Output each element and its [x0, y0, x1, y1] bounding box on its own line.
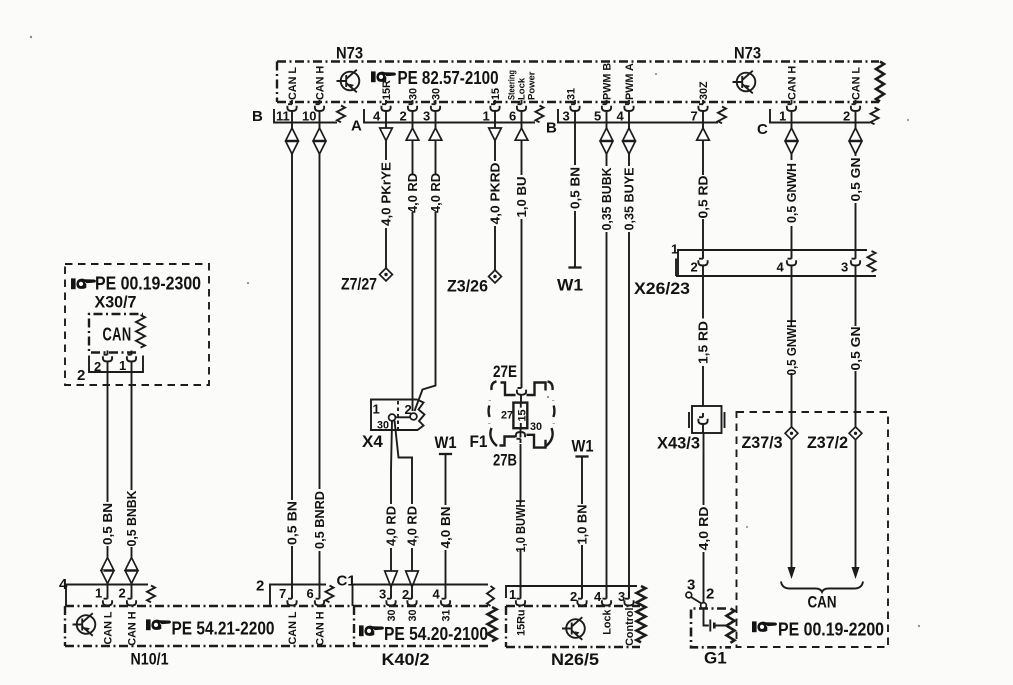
pin socket X43/3 — [698, 413, 707, 424]
svg-text:N10/1: N10/1 — [131, 650, 169, 669]
svg-text:4,0 RD: 4,0 RD — [385, 506, 399, 546]
svg-text:27E: 27E — [493, 362, 517, 381]
wire F1 27B to N26/5 pin1 — [520, 444, 522, 597]
svg-text:27B: 27B — [493, 451, 517, 470]
wire pin A2 to X4 terminal — [412, 111, 414, 411]
svg-text:2: 2 — [570, 589, 577, 604]
svg-text:6: 6 — [509, 109, 516, 124]
svg-text:1: 1 — [119, 358, 126, 373]
arrow pin A4 — [380, 128, 393, 141]
N26/5 box — [506, 606, 640, 647]
svg-text:7: 7 — [691, 109, 698, 124]
wire X26/23 pin4 to splice Z37/3 — [791, 266, 793, 428]
bidirectional arrow pin C2 — [849, 128, 862, 154]
svg-text:4: 4 — [433, 587, 441, 602]
wire pin B4 to N26/5 pin3 — [628, 111, 630, 597]
pin socket K40/2-4 — [441, 595, 450, 606]
svg-text:X43/3: X43/3 — [657, 434, 700, 453]
N10/1+K40/2 box top edge — [65, 605, 490, 607]
ground W1 top — [568, 267, 581, 269]
pin socket C2 — [851, 100, 860, 111]
svg-text:CAN H: CAN H — [315, 611, 327, 645]
svg-text:4,0 RD: 4,0 RD — [406, 506, 420, 546]
svg-text:CAN L: CAN L — [287, 67, 299, 100]
svg-text:0,5 BN: 0,5 BN — [569, 167, 583, 209]
svg-text:15: 15 — [490, 88, 502, 100]
N73 box top edge — [277, 60, 879, 62]
svg-text:G1: G1 — [704, 649, 727, 668]
transistor symbol in N26/5 — [562, 617, 585, 640]
svg-text:W1: W1 — [572, 437, 594, 456]
connector B bracket right half — [558, 107, 726, 124]
svg-text:K40/2: K40/2 — [382, 650, 430, 669]
svg-text:F1: F1 — [470, 432, 488, 451]
CAN gateway inner box (dash-dot) — [89, 314, 145, 353]
wire pin A3 to X4 terminal (with jog) — [415, 111, 436, 411]
svg-text:3: 3 — [379, 587, 386, 602]
fuse terminal socket 27B — [516, 432, 525, 443]
svg-text:Power: Power — [527, 71, 538, 100]
svg-text:2: 2 — [119, 586, 126, 601]
svg-text:PE 54.20-2100: PE 54.20-2100 — [384, 623, 488, 644]
N73 box right edge resistor zigzag — [876, 62, 884, 102]
svg-text:1,5 RD: 1,5 RD — [697, 321, 711, 364]
N26/5 pin3 stub — [628, 587, 630, 598]
wire W1 to N26/5 pin2 — [581, 457, 583, 598]
bidirectional arrow pin C1 — [785, 128, 798, 154]
N73 box bottom edge — [277, 101, 879, 103]
svg-text:A: A — [351, 118, 362, 135]
svg-text:31: 31 — [566, 88, 578, 100]
arrow pin A3 — [429, 128, 442, 140]
wire X4 stud30 to K40/2 pin3 — [391, 421, 392, 571]
svg-text:1: 1 — [95, 586, 102, 601]
pin socket X30/7-2 — [103, 351, 112, 362]
X30/7 outer dashed box — [65, 264, 209, 385]
svg-text:X26/23: X26/23 — [634, 279, 690, 298]
svg-text:6: 6 — [307, 586, 314, 601]
svg-text:N26/5: N26/5 — [551, 650, 599, 669]
N73 box left edge — [276, 62, 278, 103]
pin socket X26/23-2 — [698, 255, 707, 266]
svg-text:PWM A: PWM A — [624, 63, 636, 100]
G1 switch terminal 2 circle — [701, 603, 707, 609]
hand pointer icon N10/1 — [146, 619, 171, 630]
svg-text:1: 1 — [483, 109, 490, 124]
svg-text:0,35 BUYE: 0,35 BUYE — [623, 168, 637, 231]
pin socket X26/23-4 — [787, 255, 796, 266]
wire Z37/3 down to CAN bundle — [791, 440, 793, 567]
transistor symbol in N73 left — [337, 70, 360, 93]
N10/1 pin1 stub — [107, 584, 109, 598]
svg-text:Z7/27: Z7/27 — [341, 275, 377, 294]
pin socket N26/5-1 — [516, 595, 525, 606]
svg-text:1,0 BN: 1,0 BN — [576, 505, 590, 545]
bidirectional arrow pin B4 — [623, 128, 636, 154]
svg-text:1: 1 — [779, 109, 786, 124]
svg-text:2: 2 — [691, 260, 698, 275]
pin socket K40/2-3 — [386, 595, 395, 606]
svg-text:0,5 BNRD: 0,5 BNRD — [313, 491, 327, 549]
svg-text:2: 2 — [77, 367, 85, 384]
N26/5 pin1 stub — [520, 587, 522, 598]
pin socket K40/2-2 — [407, 595, 416, 606]
pin socket A3 — [431, 100, 440, 111]
svg-text:4,0 RD: 4,0 RD — [406, 173, 420, 213]
scan noise specks — [30, 36, 920, 627]
svg-text:CAN L: CAN L — [851, 67, 863, 100]
bidirectional arrow pin 10 — [313, 128, 326, 154]
N26/5 pin2 stub — [581, 587, 583, 598]
svg-text:PE 54.21-2200: PE 54.21-2200 — [172, 618, 275, 639]
K40/2 pin3 stub — [390, 587, 392, 598]
hand pointer icon PE 00.19-2200 — [752, 621, 777, 632]
svg-text:N73: N73 — [336, 44, 363, 63]
svg-text:0,5 GNWH: 0,5 GNWH — [785, 163, 799, 223]
fuse box top right staple — [527, 383, 546, 396]
arrow pin 7 — [697, 128, 710, 140]
svg-text:C: C — [757, 121, 768, 138]
svg-text:30: 30 — [431, 88, 443, 100]
X4 terminal stud 2 — [410, 413, 417, 420]
K40/2 pin2 stub — [411, 587, 413, 598]
pin label Steering Lock Power (pin 6) — [507, 70, 538, 100]
G1 battery cell symbol — [704, 609, 728, 632]
fuse terminal socket 27E — [517, 384, 526, 395]
pin socket A2 — [408, 100, 417, 111]
svg-text:0,5 BNBK: 0,5 BNBK — [125, 491, 139, 547]
svg-text:3: 3 — [841, 260, 848, 275]
N10/1 box left edge — [64, 606, 66, 646]
wire pin 7 to X26/23 pin2 — [702, 111, 704, 257]
pin socket A1 — [490, 100, 499, 111]
svg-text:31: 31 — [441, 610, 453, 622]
fuse box right dash-dot edge — [546, 382, 554, 447]
svg-text:2: 2 — [706, 586, 714, 603]
svg-text:X4: X4 — [362, 432, 383, 451]
svg-text:5: 5 — [594, 109, 601, 124]
pin socket B3 — [570, 100, 579, 111]
svg-text:4: 4 — [617, 109, 625, 124]
pin socket B4 — [624, 100, 633, 111]
wire pin B5 to N26/5 pin4 — [606, 111, 608, 597]
svg-text:X30/7: X30/7 — [95, 293, 137, 312]
svg-text:1,0 BU: 1,0 BU — [515, 177, 529, 218]
pin socket N10/1-1 — [103, 595, 112, 606]
svg-text:4,0 RD: 4,0 RD — [429, 173, 443, 213]
svg-text:30: 30 — [386, 610, 398, 622]
svg-text:3: 3 — [687, 577, 695, 594]
N10/1 pin2 stub — [131, 584, 133, 598]
fuse box bottom left staple — [500, 437, 516, 446]
svg-text:N73: N73 — [734, 44, 761, 63]
svg-text:3: 3 — [618, 589, 625, 604]
ground W1 near X4 — [439, 453, 452, 455]
pin socket X30/7-1 — [127, 351, 136, 362]
svg-text:Z37/2: Z37/2 — [807, 433, 848, 452]
wire pin C2 to X26/23 pin3 — [855, 111, 857, 257]
wire X4 stud30 to K40/2 pin2 (with jog) — [395, 421, 413, 571]
svg-text:1: 1 — [671, 242, 678, 257]
wire W1 to K40/2 pin4 — [445, 454, 447, 597]
pin socket C1 — [787, 100, 796, 111]
hand pointer icon X30/7 — [71, 278, 96, 289]
svg-text:0,5 BN: 0,5 BN — [101, 503, 115, 545]
X4 terminal stud 30 — [389, 414, 396, 421]
svg-text:B: B — [252, 108, 263, 125]
svg-text:Z37/3: Z37/3 — [742, 433, 783, 452]
N10/1 / K40/2 divider — [353, 606, 355, 646]
N26/5 bracket — [506, 586, 637, 598]
hand pointer icon K40/2 — [359, 625, 384, 636]
svg-text:0,5 BN: 0,5 BN — [286, 501, 300, 545]
svg-text:Control: Control — [624, 608, 636, 646]
svg-text:W1: W1 — [557, 276, 583, 295]
arrow pin A6 — [515, 128, 528, 140]
svg-text:15: 15 — [516, 409, 528, 421]
pin socket B5 — [602, 100, 611, 111]
svg-text:30: 30 — [530, 421, 542, 433]
svg-text:27: 27 — [501, 410, 513, 422]
svg-text:W1: W1 — [435, 433, 457, 452]
transistor symbol in N10/1 — [73, 613, 96, 636]
bidirectional arrow pin B5 — [600, 128, 613, 154]
wire X30/7 pin1 to N10/1 pin2 — [131, 362, 133, 558]
svg-text:15Ru: 15Ru — [516, 610, 528, 636]
svg-text:CAN H: CAN H — [315, 66, 327, 100]
pin socket N10/1-7 — [287, 595, 296, 606]
fuse box bottom right staple — [527, 435, 546, 448]
K40/2 right edge zigzag — [488, 607, 497, 641]
wire X30/7 pin2 to N10/1 pin1 — [107, 362, 109, 558]
svg-text:1: 1 — [509, 587, 516, 602]
svg-text:10: 10 — [302, 109, 316, 124]
N26/5 pin4 stub — [606, 587, 608, 598]
pin socket 7 — [698, 100, 707, 111]
splice Z37/2 — [849, 427, 862, 440]
svg-text:0,5 GN: 0,5 GN — [849, 158, 863, 202]
N10/1 bracket 2 — [270, 585, 334, 607]
X26/23 connector bar — [676, 250, 876, 276]
pin socket N26/5-3 — [624, 595, 633, 606]
svg-text:CAN: CAN — [103, 324, 132, 345]
svg-text:PE 00.19-2300: PE 00.19-2300 — [95, 273, 201, 294]
splice Z7/27 — [380, 268, 393, 281]
pin socket N10/1-6 — [315, 595, 324, 606]
svg-text:15R: 15R — [381, 80, 393, 100]
svg-text:30Z: 30Z — [698, 81, 710, 100]
wire pin A6 to fuse F1 terminal 27E — [521, 111, 523, 386]
bidirectional arrow above N10/1 pin2 — [125, 558, 138, 584]
arrow above K40/2 pin2 — [406, 571, 419, 587]
arrow pin A1 — [489, 128, 502, 141]
svg-text:30: 30 — [407, 610, 419, 622]
X30/7 pin bracket — [89, 356, 143, 373]
transistor symbol in N73 right — [733, 71, 756, 94]
splice Z3/26 — [489, 270, 502, 283]
N10/1+K40/2 box bottom edge — [65, 645, 490, 647]
wire X26/23 pin2 to X43/3 — [702, 266, 704, 407]
svg-text:B: B — [546, 120, 557, 137]
pin socket B11 — [287, 100, 296, 111]
bidirectional arrow pin 11 — [286, 128, 299, 154]
svg-text:C1: C1 — [337, 573, 356, 590]
svg-text:4,0 PKrYE: 4,0 PKrYE — [380, 162, 394, 226]
svg-text:0,5 GN: 0,5 GN — [849, 327, 863, 371]
svg-text:PE 82.57-2100: PE 82.57-2100 — [398, 67, 499, 88]
wire pin11 to N10/1 pin7 (CAN bus) — [291, 111, 293, 597]
wire pin B3 to ground W1 — [574, 111, 576, 267]
svg-text:4: 4 — [594, 589, 602, 604]
G1 battery switch terminal 3 circle — [686, 592, 692, 598]
svg-text:3: 3 — [423, 109, 430, 124]
pin socket A4 — [381, 100, 390, 111]
svg-text:Lock: Lock — [602, 609, 614, 635]
splice Z37/3 — [785, 427, 798, 440]
hand pointer icon N73 — [371, 71, 396, 82]
svg-text:30: 30 — [377, 420, 389, 432]
pin socket A6 — [517, 100, 526, 111]
fuse element 15A — [513, 395, 527, 438]
svg-text:CAN H: CAN H — [127, 611, 139, 645]
svg-text:1: 1 — [373, 402, 380, 417]
wire pin A1 to splice Z3/26 — [494, 111, 496, 271]
svg-text:PWM B: PWM B — [602, 63, 614, 100]
svg-text:PE 00.19-2200: PE 00.19-2200 — [778, 619, 884, 640]
X4 terminal block body — [371, 400, 425, 431]
svg-text:4,0 PKRD: 4,0 PKRD — [489, 163, 503, 225]
svg-text:30: 30 — [408, 88, 420, 100]
bidirectional arrow above N10/1 pin1 — [101, 558, 114, 584]
pin socket N26/5-4 — [602, 595, 611, 606]
svg-text:4,0 BN: 4,0 BN — [439, 507, 453, 549]
wire pin C1 to X26/23 pin4 — [791, 111, 793, 257]
svg-text:1,0 BUWH: 1,0 BUWH — [514, 500, 528, 553]
svg-text:CAN H: CAN H — [787, 66, 799, 100]
G1 battery switch blade — [691, 597, 702, 604]
arrow above K40/2 pin3 — [385, 571, 398, 587]
G1 battery box (dash-dot) — [691, 609, 735, 648]
svg-text:0,5 GNWH: 0,5 GNWH — [785, 320, 799, 376]
fuse box left dash-dot edge — [489, 382, 497, 447]
wire X26/23 pin3 to splice Z37/2 — [855, 266, 857, 428]
arrowhead Z37/2 — [852, 567, 860, 579]
K40/2 bracket C1 — [353, 585, 495, 607]
svg-text:11: 11 — [276, 109, 290, 124]
pin socket N26/5-2 — [577, 595, 586, 606]
svg-text:4: 4 — [777, 260, 785, 275]
pin socket X26/23-3 — [851, 255, 860, 266]
svg-text:4,0 RD: 4,0 RD — [697, 507, 711, 551]
big dashed box PE 00.19-2200 — [737, 412, 889, 647]
svg-text:4: 4 — [59, 576, 68, 593]
svg-text:Z3/26: Z3/26 — [447, 277, 488, 296]
pin socket N10/1-2 — [127, 595, 136, 606]
svg-text:0,35 BUBK: 0,35 BUBK — [600, 168, 614, 231]
X4 internal link wire — [395, 416, 410, 418]
fuse box top left staple — [501, 383, 516, 396]
connector C bracket — [770, 108, 879, 125]
connector A bracket — [364, 106, 544, 123]
wire pin A4 to splice Z7/27 — [385, 111, 387, 268]
svg-text:CAN L: CAN L — [103, 611, 115, 644]
CAN bundle brace — [781, 582, 863, 593]
X43/3 connector box — [689, 406, 725, 433]
svg-text:4: 4 — [373, 109, 381, 124]
connector B bracket — [274, 106, 345, 123]
svg-text:3: 3 — [563, 109, 570, 124]
arrowhead Z37/3 — [788, 567, 796, 579]
pin socket B10 — [315, 100, 324, 111]
N10/1 bracket 4 — [66, 585, 155, 607]
N26/5 right edge zigzag — [637, 586, 646, 642]
wire X43/3 to battery G1 terminal 2 — [702, 424, 705, 602]
arrow pin A2 — [406, 128, 419, 140]
svg-text:0,5 RD: 0,5 RD — [697, 176, 711, 219]
svg-text:CAN L: CAN L — [287, 611, 299, 644]
ground W1 near N26/5 — [575, 456, 588, 458]
wire Z37/2 down to CAN bundle — [855, 440, 857, 567]
svg-text:2: 2 — [400, 109, 407, 124]
svg-text:2: 2 — [256, 578, 264, 595]
wire pin10 to N10/1 pin6 (CAN bus) — [319, 111, 321, 597]
svg-text:CAN: CAN — [808, 593, 837, 612]
svg-text:2: 2 — [402, 587, 409, 602]
svg-text:2: 2 — [843, 109, 850, 124]
svg-text:7: 7 — [279, 586, 286, 601]
